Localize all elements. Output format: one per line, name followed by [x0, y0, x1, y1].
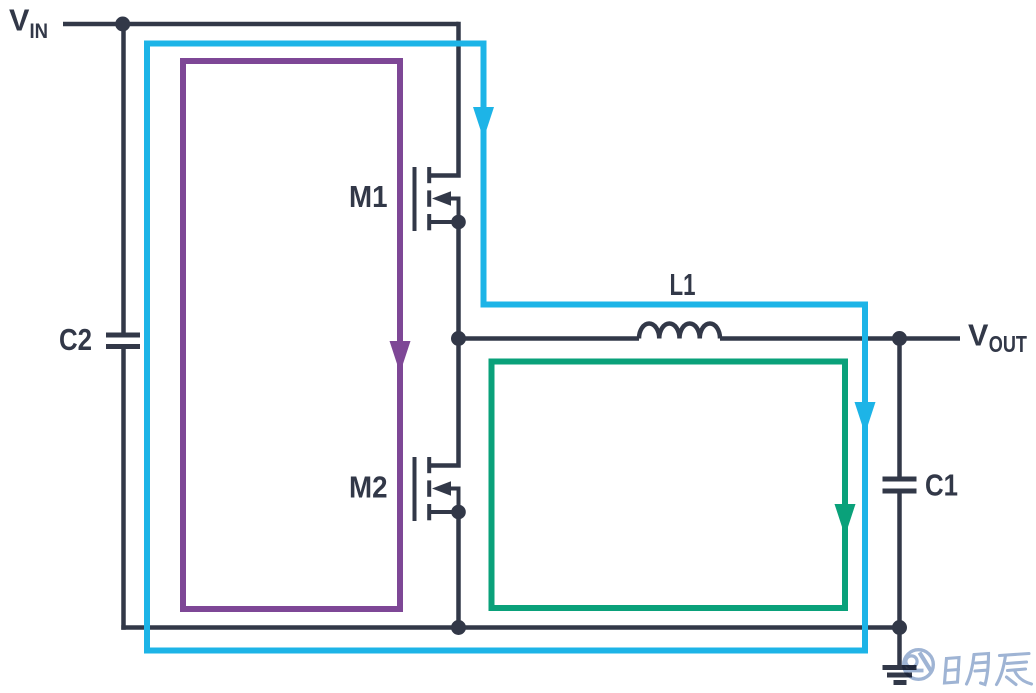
- node VIN junction: [115, 17, 130, 32]
- wire M1 drain drop: [429, 22, 459, 176]
- arrow purple (down): [390, 341, 411, 373]
- wire bottom rail: [121, 625, 900, 630]
- node bottom mid junction: [451, 620, 466, 635]
- svg-text:M2: M2: [349, 470, 388, 505]
- watermark logo: [904, 650, 934, 680]
- wire C1 top: [897, 339, 902, 477]
- wire SW to L1: [459, 336, 640, 341]
- wire VIN top rail: [63, 22, 459, 27]
- wire C1 bottom: [897, 494, 902, 628]
- svg-text:OUT: OUT: [989, 331, 1027, 357]
- node M1 source dot: [451, 215, 466, 230]
- loop hot (cyan): [147, 44, 865, 651]
- wire M1 source to SW: [456, 222, 461, 339]
- wire ground stem: [897, 628, 902, 666]
- ground: [883, 668, 917, 683]
- svg-text:IN: IN: [30, 20, 49, 43]
- svg-text:M1: M1: [349, 179, 388, 214]
- node bottom right junction: [892, 620, 907, 635]
- transistor M2: [415, 457, 459, 521]
- svg-text:V: V: [9, 3, 30, 38]
- inductor L1: [639, 323, 720, 338]
- loop input (purple): [183, 61, 400, 609]
- capacitor C2: [106, 335, 140, 347]
- arrow cyan right (down): [855, 402, 876, 434]
- watermark text 日月辰: [945, 654, 1032, 685]
- svg-text:V: V: [968, 318, 989, 353]
- svg-text:C1: C1: [925, 468, 958, 503]
- svg-text:C2: C2: [59, 322, 92, 357]
- arrow M2 body (left): [432, 481, 451, 496]
- arrow cyan top (down): [473, 107, 494, 139]
- node M2 source dot: [451, 505, 466, 520]
- node SW junction: [451, 331, 466, 346]
- node VOUT junction: [892, 331, 907, 346]
- wire M2 drain drop: [429, 339, 459, 466]
- wire left rail upper: [121, 24, 126, 333]
- wire VOUT stub: [900, 336, 961, 341]
- loop output (green): [492, 362, 846, 609]
- arrow green (down): [835, 504, 856, 536]
- wire L1 to VOUT node: [720, 336, 900, 341]
- capacitor C1: [883, 479, 917, 491]
- transistor M1: [415, 167, 459, 231]
- arrow M1 body (left): [432, 191, 451, 206]
- wire left rail lower: [121, 349, 126, 630]
- svg-text:L1: L1: [670, 267, 696, 302]
- wire M2 source to bottom: [456, 512, 461, 628]
